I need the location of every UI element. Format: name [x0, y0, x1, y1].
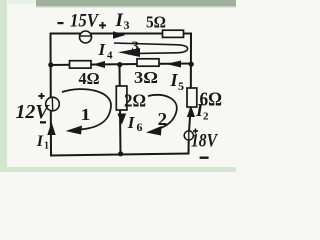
node D bottom junction	[118, 151, 123, 156]
svg-text:3Ω: 3Ω	[134, 68, 158, 87]
node B middle junction	[117, 62, 122, 67]
polarity minus of 12V	[40, 121, 46, 123]
left green strip	[0, 0, 7, 172]
wire middle horizontal	[51, 64, 192, 66]
arrow I6	[117, 114, 126, 125]
svg-text:1: 1	[81, 105, 91, 124]
arrow I2	[187, 106, 195, 117]
svg-text:2: 2	[158, 109, 168, 129]
loop 1 arrow	[62, 89, 111, 134]
wire middle vertical	[120, 65, 121, 154]
svg-text:1: 1	[44, 141, 49, 152]
resistor R5 5ohm box	[163, 30, 184, 37]
svg-text:4Ω: 4Ω	[79, 69, 100, 88]
svg-text:I: I	[36, 133, 44, 150]
loop 2 arrow	[146, 95, 177, 136]
polarity minus of 18V	[200, 157, 209, 159]
wire bottom	[51, 154, 189, 156]
arrow I3	[113, 31, 126, 38]
voltage source E2 12V	[46, 97, 60, 111]
node C right junction	[189, 62, 194, 67]
voltage source E3 18V	[184, 131, 193, 140]
svg-text:5Ω: 5Ω	[146, 13, 166, 32]
svg-text:15V: 15V	[70, 11, 99, 32]
polarity plus of 15V	[99, 22, 106, 29]
voltage source E1 15V	[80, 31, 92, 43]
resistor R6 6ohm box	[187, 88, 197, 107]
arrow I1	[47, 122, 55, 135]
svg-text:18V: 18V	[191, 131, 218, 152]
resistor R3 3ohm box	[137, 59, 159, 66]
svg-text:2: 2	[203, 111, 209, 123]
svg-text:2Ω: 2Ω	[124, 91, 146, 111]
resistor R4 4ohm box	[70, 61, 92, 68]
svg-text:12V: 12V	[16, 101, 51, 123]
polarity plus of 12V	[38, 93, 44, 99]
arrow into right node on middle wire	[166, 61, 181, 68]
top-left pale block	[8, 0, 36, 4]
svg-text:5: 5	[178, 79, 184, 93]
loop 3 arrow	[114, 43, 188, 57]
resistor R2 2ohm box	[116, 86, 127, 110]
node A left junction	[48, 62, 53, 67]
wire top	[51, 33, 192, 35]
wire left	[50, 34, 53, 156]
polarity minus of 15V	[58, 22, 64, 24]
svg-text:6: 6	[137, 120, 143, 134]
svg-text:3: 3	[124, 18, 130, 32]
arrow I4 on wire	[93, 61, 106, 68]
bottom green strip	[0, 167, 236, 172]
svg-text:4: 4	[107, 50, 113, 62]
svg-text:I: I	[115, 10, 124, 31]
svg-text:3: 3	[132, 38, 140, 53]
polarity plus of 18V	[193, 129, 198, 134]
page background	[0, 0, 236, 172]
top sage bar	[36, 0, 236, 6]
wire right	[189, 34, 192, 154]
